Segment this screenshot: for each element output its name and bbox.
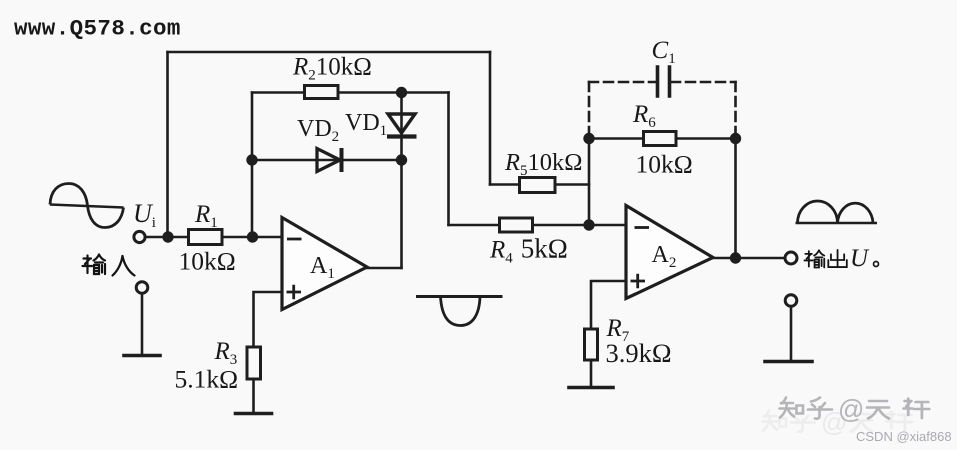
wire: output lower terminal stem [790, 307, 793, 361]
terminal: output lower [785, 295, 797, 307]
resistor R4 [500, 218, 533, 232]
label 输入 (input) hand-drawn glyphs [83, 255, 135, 276]
wire: input line to A1 inverting input [145, 236, 282, 239]
svg-text:5.1kΩ: 5.1kΩ [175, 365, 239, 394]
wire: VD2 line [252, 159, 402, 162]
resistor R7 [585, 329, 598, 360]
wire: A1 noninverting lead [254, 292, 283, 347]
svg-text:R510kΩ: R510kΩ [504, 149, 582, 179]
wire: right vertical from R6 right node to output line [734, 139, 737, 259]
svg-text:10kΩ: 10kΩ [636, 150, 693, 179]
resistor R5 [520, 178, 556, 193]
svg-text:U: U [850, 245, 870, 272]
wire: vertical from R2 line corner down to R4 line [447, 93, 450, 226]
ground under R3 [236, 412, 272, 416]
wire: dashed C1 branch left horizontal [589, 81, 655, 84]
wire: mid vertical summing node [588, 139, 591, 226]
svg-text:3.9kΩ: 3.9kΩ [606, 338, 672, 368]
svg-text:www.Q578.com: www.Q578.com [14, 16, 181, 42]
svg-text:R45kΩ: R45kΩ [489, 234, 568, 267]
capacitor C1 plates [658, 67, 670, 96]
ground under R7 [569, 386, 613, 390]
node: R6 right junction [730, 133, 741, 144]
svg-text:VD2: VD2 [297, 116, 339, 145]
node: R1 right junction [247, 231, 258, 242]
wire: R4 left lead [449, 224, 500, 227]
resistor R1 [189, 230, 223, 245]
svg-text:R3: R3 [214, 338, 238, 368]
wire: R3 bottom lead [252, 379, 255, 412]
wire: dashed C1 branch right horizontal [671, 81, 736, 84]
wire: A1 output lead [367, 267, 402, 270]
node: R6 left junction [583, 133, 594, 144]
svg-text:@: @ [838, 394, 864, 424]
svg-text:Ui: Ui [133, 199, 156, 231]
label 输出 (output) hand-drawn glyphs [804, 250, 846, 268]
wire: left vertical from R2 line down to input line [251, 93, 254, 238]
resistor R6 [644, 132, 677, 146]
wire: dashed C1 branch right vertical [734, 82, 737, 136]
node: input junction [162, 231, 173, 242]
resistor R2 [305, 86, 339, 99]
wire: A2 noninverting lead [591, 281, 626, 329]
node: VD2 left junction [246, 154, 257, 165]
ground under output terminal [765, 360, 812, 364]
wire: input lower terminal stem [141, 294, 144, 355]
wire: left riser input node to top wire [166, 52, 169, 237]
svg-text:VD1: VD1 [345, 110, 387, 139]
wire: R2 right lead to corner [338, 91, 449, 94]
wire: R5 left lead [490, 183, 520, 186]
watermark 知乎 @天轩 [780, 394, 930, 424]
wire: VD1 vertical through to A1 output [400, 93, 403, 269]
wire: R5 right lead [555, 183, 589, 186]
diode VD1 [387, 114, 417, 137]
wire: R7 bottom lead [590, 360, 593, 386]
node: R2 right / VD1 top junction [396, 87, 407, 98]
output full-wave waveform symbol [796, 222, 878, 225]
wire: right riser from top wire down to R5 [489, 52, 492, 185]
terminal: Ui input [134, 231, 145, 242]
diode VD2 [317, 148, 342, 172]
svg-text:CSDN @xiaf868: CSDN @xiaf868 [856, 429, 952, 444]
input sine waveform symbol [50, 205, 124, 208]
terminal: output [785, 252, 797, 264]
wire: R6 right lead [676, 137, 736, 140]
wire: R2 left lead [252, 91, 305, 94]
resistor R3 [247, 347, 261, 379]
op-amp A2 [626, 206, 713, 299]
ground under input terminal [124, 354, 160, 358]
node: A2 output junction [730, 252, 741, 263]
svg-text:R210kΩ: R210kΩ [292, 54, 372, 84]
svg-text:R6: R6 [632, 101, 656, 131]
watermark echo [763, 407, 913, 437]
op-amp A1 [282, 218, 367, 310]
svg-text:10kΩ: 10kΩ [179, 247, 236, 276]
wire: dashed C1 branch left vertical [588, 82, 591, 136]
node: VD2 right / VD1 bottom junction [396, 154, 407, 165]
wire: A2 output line [713, 257, 785, 260]
svg-text:R1: R1 [194, 201, 218, 231]
intermediate half-wave waveform symbol [416, 295, 503, 298]
wire: top feed line from input node to R5 riser [168, 51, 491, 54]
svg-text:C1: C1 [652, 37, 676, 67]
wire: R4 right lead to A2 inverting input [533, 224, 627, 227]
terminal: input lower [136, 282, 148, 294]
node: A2 inverting input junction [583, 219, 594, 230]
wire: R6 left lead [589, 137, 644, 140]
